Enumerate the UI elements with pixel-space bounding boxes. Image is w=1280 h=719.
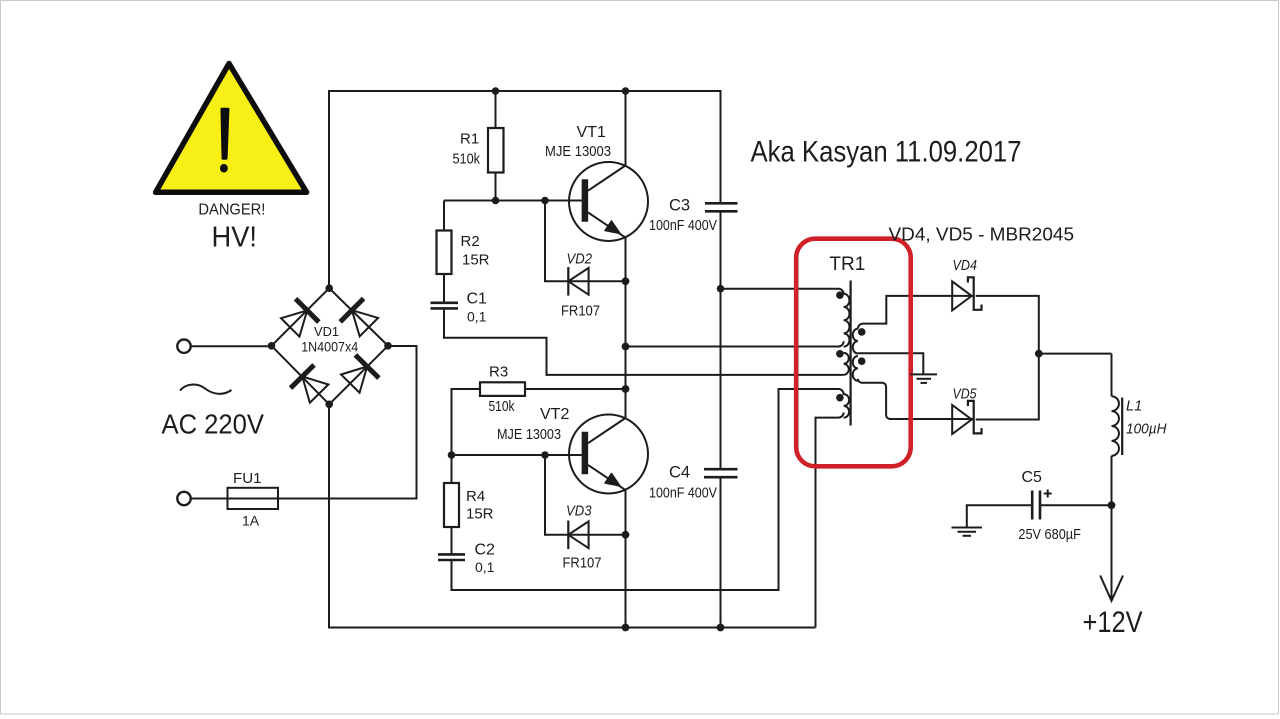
resistor R4 (444, 483, 459, 527)
transistor VT1 (569, 162, 648, 241)
inductor L1 (1112, 396, 1119, 456)
wire R4 to C2 (451, 527, 453, 554)
ground C5 (952, 528, 983, 536)
svg-text:100nF 400V: 100nF 400V (649, 486, 717, 502)
svg-text:DANGER!: DANGER! (198, 202, 265, 219)
svg-text:15R: 15R (466, 506, 494, 523)
wire secondary top to VD4 anode (858, 296, 974, 329)
wire top rail from bridge top to C3 line (329, 91, 721, 288)
svg-text:0,1: 0,1 (475, 559, 495, 575)
AC source tilde (180, 385, 232, 394)
junction node L1 C5 output (1108, 501, 1116, 509)
svg-text:MJE 13003: MJE 13003 (497, 426, 561, 443)
wire AC terminal A to bridge left node (191, 345, 271, 347)
wire C5 node down to arrow (1111, 505, 1113, 600)
svg-text:25V 680µF: 25V 680µF (1018, 526, 1081, 543)
resistor R3 (480, 382, 525, 396)
wire VD3 branch base to emitter (545, 455, 626, 535)
junction node VD3 branch base (541, 451, 549, 459)
wire lower winding bottom return to bottom rail (816, 413, 844, 628)
junction node R1 base (492, 197, 500, 205)
svg-text:FR107: FR107 (561, 303, 600, 320)
junction node VD2 branch base (541, 197, 549, 205)
bridge diode D3 upper-right (340, 299, 380, 339)
transformer feedback winding (844, 353, 849, 375)
bridge rectifier VD1 diamond edges (272, 288, 389, 404)
transformer primary winding (839, 289, 850, 347)
svg-text:VD4: VD4 (953, 258, 978, 274)
svg-text:R3: R3 (489, 364, 508, 381)
svg-text:VD4, VD5 - MBR2045: VD4, VD5 - MBR2045 (889, 223, 1075, 244)
svg-text:C4: C4 (669, 464, 690, 482)
svg-text:1N4007x4: 1N4007x4 (301, 338, 358, 354)
junction node R3 base (448, 451, 456, 459)
junction node VD3 emitter (622, 531, 630, 539)
bridge diode D1 lower-left (291, 365, 331, 405)
capacitor C2 (438, 554, 465, 560)
wire VD2 branch base to emitter (545, 201, 626, 282)
wire bottom rail (329, 404, 816, 627)
wire VT1 collector (625, 91, 627, 166)
transformer primary phase dot (836, 291, 844, 299)
wire VT1 emitter to VT2 collector trunk (625, 238, 627, 419)
transformer TR1 red highlight box (796, 239, 911, 467)
svg-text:FU1: FU1 (233, 470, 262, 487)
svg-text:Aka Kasyan 11.09.2017: Aka Kasyan 11.09.2017 (751, 135, 1022, 168)
wire C3 bottom to primary top and down to C4 (721, 211, 839, 468)
fuse FU1 (228, 488, 279, 509)
svg-text:R1: R1 (460, 131, 479, 148)
svg-text:TR1: TR1 (829, 254, 865, 275)
wire C4 bottom to bottom rail (720, 476, 722, 627)
node bridge bottom (325, 401, 333, 409)
svg-text:100µH: 100µH (1126, 421, 1167, 438)
svg-text:510k: 510k (453, 151, 481, 168)
wire C5 left plate to ground (967, 505, 1031, 527)
wire R1 bottom to base node (495, 173, 497, 201)
svg-text:+12V: +12V (1083, 606, 1143, 639)
transformer secondary upper phase dot (858, 328, 866, 336)
junction node midpoint primary (622, 343, 630, 351)
wire base node to R2 (443, 201, 445, 231)
wire VT2 emitter down to bottom rail (625, 490, 627, 628)
output arrow head (1100, 576, 1123, 601)
svg-text:VD5: VD5 (953, 387, 978, 403)
junction node emitter bottom rail (622, 624, 630, 632)
inductor L1 core bar (1121, 398, 1123, 456)
wire secondary bottom to VD5 anode (858, 379, 974, 419)
wire fuse to AC terminal B (191, 498, 227, 500)
node bridge right (384, 342, 392, 350)
wire R3 left leg (452, 389, 481, 455)
svg-text:C1: C1 (467, 291, 488, 308)
svg-text:MJE 13003: MJE 13003 (545, 143, 611, 160)
node bridge top (325, 284, 333, 292)
transformer core (849, 281, 851, 426)
junction node R3 collector (622, 385, 630, 393)
transformer lower winding (839, 389, 850, 418)
junction node C4 bottom rail (717, 624, 725, 632)
svg-text:FR107: FR107 (563, 555, 602, 572)
junction node VD2 emitter (622, 277, 630, 285)
capacitor C5 (1032, 491, 1040, 520)
transformer secondary lower winding (853, 356, 858, 381)
svg-text:510k: 510k (489, 398, 515, 415)
wire L1 top lead (1111, 354, 1113, 397)
wire L1 bottom lead to C5 node (1111, 456, 1113, 505)
svg-text:1A: 1A (242, 513, 260, 529)
wire bridge right node to fuse (278, 346, 417, 499)
diode VD4 schottky (952, 277, 981, 310)
wire R1 top (495, 91, 497, 128)
wire C2 bottom to lower winding top (452, 389, 839, 590)
node bridge left (268, 342, 276, 350)
svg-text:VD1: VD1 (314, 324, 339, 339)
junction node top rail R1 (492, 87, 500, 95)
svg-text:VT1: VT1 (577, 124, 606, 141)
wire R3 right to collector (525, 388, 626, 390)
svg-text:15R: 15R (462, 252, 490, 269)
bridge diode D2 upper-left (279, 299, 319, 339)
wire R4 top (451, 455, 453, 483)
wire half-bridge midpoint to primary winding (626, 341, 844, 346)
diode VD5 schottky (952, 401, 981, 434)
svg-text:HV!: HV! (212, 222, 258, 254)
resistor R2 (437, 231, 452, 275)
terminal A circle (177, 340, 190, 353)
svg-text:VT2: VT2 (540, 406, 569, 423)
svg-text:R2: R2 (461, 233, 480, 250)
diode VD2 (568, 267, 588, 296)
capacitor C1 (431, 303, 459, 309)
transformer feedback phase dot (836, 350, 844, 358)
svg-text:R4: R4 (466, 488, 485, 505)
capacitor C5 plus sign (1044, 490, 1052, 498)
wire R2 to C1 (443, 274, 445, 302)
svg-text:C2: C2 (475, 542, 496, 559)
transformer lower winding phase dot (836, 394, 844, 402)
wire VT1 base (444, 200, 582, 202)
danger warning triangle (156, 64, 307, 193)
transformer secondary lower phase dot (858, 357, 866, 365)
diode VD3 (568, 521, 588, 550)
wire VD4 cathode to output node (976, 296, 1039, 420)
wire secondary centre tap to ground (858, 353, 923, 374)
bridge diode D4 lower-right (339, 355, 379, 395)
wire VT2 base (452, 454, 582, 456)
junction node C3 C4 primary (717, 285, 725, 293)
transformer secondary upper winding (853, 329, 858, 354)
ground centre tap (911, 374, 938, 383)
svg-text:VD3: VD3 (566, 502, 592, 519)
capacitor C4 (704, 469, 738, 477)
capacitor C3 (705, 203, 738, 211)
svg-text:100nF 400V: 100nF 400V (649, 218, 717, 234)
terminal B circle (177, 492, 190, 505)
resistor R1 (488, 128, 504, 173)
transistor VT2 (569, 415, 648, 494)
wire C5 right plate to node (1041, 504, 1112, 506)
junction node top rail collector (622, 87, 630, 95)
wire output node to L1 (1039, 353, 1112, 355)
junction node VD4 VD5 cathodes (1035, 350, 1043, 358)
wire C1 bottom to feedback winding bottom (444, 309, 844, 375)
svg-text:C5: C5 (1022, 469, 1043, 486)
svg-text:C3: C3 (669, 197, 690, 215)
svg-text:L1: L1 (1126, 398, 1142, 414)
svg-text:0,1: 0,1 (467, 309, 487, 325)
svg-text:VD2: VD2 (567, 251, 593, 268)
svg-text:AC 220V: AC 220V (162, 409, 265, 440)
